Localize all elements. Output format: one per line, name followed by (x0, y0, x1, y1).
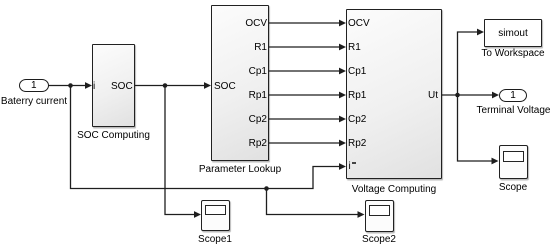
label Baterry current (0, 96, 84, 107)
pin SOC input of Parameter Lookup (214, 82, 236, 92)
pin Rp1 of Parameter Lookup (237, 91, 267, 101)
pin R1 of Parameter Lookup (237, 43, 267, 53)
pin Cp1 of Voltage Computing (348, 67, 366, 77)
arrowhead into SOC Computing (85, 82, 92, 89)
junction B (264, 186, 269, 191)
arrowhead into Terminal Voltage (492, 92, 499, 99)
wire branch B down to Scope2 (267, 189, 358, 215)
wire branch B to Voltage Computing i input (267, 167, 340, 189)
label Parameter Lookup (190, 164, 290, 175)
wire Baterry current to SOC Computing (49, 85, 86, 87)
arrowhead Cp2 (339, 116, 346, 123)
pin Cp2 of Parameter Lookup (237, 115, 267, 125)
pin Rp1 of Voltage Computing (348, 91, 366, 101)
pin i of SOC Computing (93, 82, 95, 92)
arrowhead into Scope1 (194, 211, 201, 218)
pin i of Voltage Computing (349, 162, 351, 172)
pin Cp2 of Voltage Computing (348, 115, 366, 125)
arrowhead Cp1 (339, 68, 346, 75)
wire Rp1 Parameter Lookup to Voltage Computing (269, 94, 339, 96)
superscript mark of pin i (352, 162, 357, 164)
wire branch A down to bottom bus (71, 86, 267, 189)
wire Cp2 Parameter Lookup to Voltage Computing (269, 118, 339, 120)
wire branch D up to To Workspace (458, 32, 478, 95)
input port 1 Baterry current (19, 79, 49, 92)
arrowhead Rp1 (339, 92, 346, 99)
block Scope2 (365, 200, 394, 232)
wire Rp2 Parameter Lookup to Voltage Computing (269, 142, 339, 144)
label SOC Computing (64, 130, 164, 141)
label Scope2 (329, 234, 429, 245)
junction A (68, 83, 73, 88)
screen of Scope2 (369, 205, 391, 216)
arrowhead into Voltage Computing i (339, 163, 346, 170)
label Terminal Voltage (464, 105, 550, 116)
pin OCV of Voltage Computing (348, 19, 370, 29)
wire branch D down to Scope (458, 95, 492, 161)
label Voltage Computing (344, 184, 444, 195)
screen of Scope (503, 151, 524, 163)
block Parameter Lookup (211, 5, 269, 162)
junction C (163, 83, 168, 88)
pin SOC output of SOC Computing (111, 82, 132, 92)
wire SOC Computing output to Parameter Lookup (135, 85, 204, 87)
label Scope (463, 182, 550, 193)
value simout (463, 28, 550, 39)
pin Cp1 of Parameter Lookup (237, 67, 267, 77)
arrowhead R1 (339, 44, 346, 51)
screen of Scope1 (205, 205, 226, 216)
block Scope1 (201, 200, 230, 232)
pin Rp2 of Voltage Computing (348, 139, 366, 149)
wire Cp1 Parameter Lookup to Voltage Computing (269, 70, 339, 72)
block To Workspace simout (484, 19, 542, 47)
arrowhead OCV (339, 20, 346, 27)
pin Ut output of Voltage Computing (408, 91, 438, 101)
output port 1 Terminal Voltage (499, 89, 527, 102)
block Voltage Computing (346, 9, 442, 179)
arrowhead Rp2 (339, 140, 346, 147)
label Scope1 (165, 234, 265, 245)
pin Rp2 of Parameter Lookup (237, 139, 267, 149)
pin R1 of Voltage Computing (348, 43, 361, 53)
label To Workspace (463, 48, 550, 59)
pin OCV of Parameter Lookup (237, 19, 267, 29)
arrowhead into Scope2 (358, 211, 365, 218)
wire branch C down to Scope1 (165, 86, 194, 215)
junction D (455, 93, 460, 98)
arrowhead into Scope (492, 158, 499, 165)
block SOC Computing (92, 44, 135, 127)
block Scope (499, 145, 528, 179)
arrowhead into To Workspace (477, 29, 484, 36)
wire R1 Parameter Lookup to Voltage Computing (269, 46, 339, 48)
wire Ut to Terminal Voltage (442, 94, 492, 96)
arrowhead into Parameter Lookup (204, 82, 211, 89)
wire OCV Parameter Lookup to Voltage Computing (269, 22, 339, 24)
